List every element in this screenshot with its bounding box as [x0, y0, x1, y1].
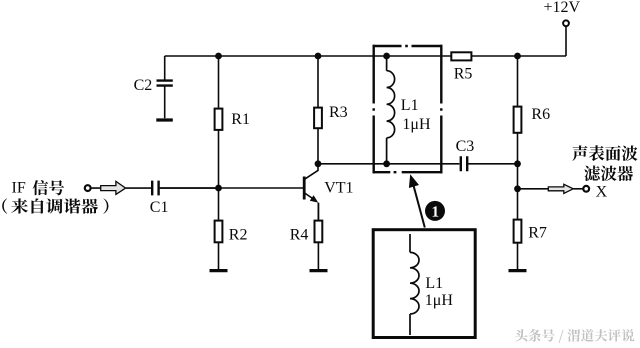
node (collector)	[315, 160, 322, 167]
wire emitter / R4 column	[317, 203, 319, 269]
svg-text:R2: R2	[229, 226, 248, 243]
resistor R7	[514, 220, 522, 243]
ground (R7)	[509, 269, 527, 272]
node (output/R7)	[514, 185, 521, 192]
resistor R1	[215, 109, 223, 130]
label C3	[456, 138, 475, 155]
label C2	[134, 77, 153, 94]
node (L1 bottom)	[383, 160, 390, 167]
svg-text:+12V: +12V	[544, 0, 581, 16]
wire R3 column	[317, 56, 319, 164]
svg-text:C2: C2	[134, 77, 153, 94]
node (L1 top)	[383, 53, 390, 60]
wire collector row to C3	[318, 163, 518, 165]
svg-text:R6: R6	[531, 106, 550, 123]
label L1 (callout)	[425, 275, 443, 292]
wire top supply rail	[165, 55, 566, 57]
label R1	[231, 111, 250, 128]
label （来自调谐器）	[2, 198, 7, 213]
capacitor C1	[152, 181, 158, 196]
label R4	[290, 227, 309, 244]
svg-text:C1: C1	[150, 199, 169, 216]
label R3	[329, 104, 348, 121]
resistor R2	[215, 221, 223, 243]
label R6	[531, 106, 550, 123]
callout arrow	[409, 174, 425, 227]
svg-text:L1: L1	[401, 97, 419, 114]
svg-text:R4: R4	[290, 227, 309, 244]
svg-text:L1: L1	[425, 275, 443, 292]
label L1 (shield box)	[401, 97, 419, 114]
inductor L1 (callout detail)	[410, 234, 419, 335]
label VT1	[324, 179, 353, 196]
wire C1 to base junction	[160, 187, 219, 189]
wire base rail	[160, 187, 303, 189]
wire +12V riser	[565, 27, 567, 56]
resistor R4	[315, 221, 323, 243]
wire R6 column	[517, 56, 519, 164]
label 1uH (shield box)	[402, 116, 431, 133]
label C1	[150, 199, 169, 216]
terminal +12V	[563, 20, 569, 26]
terminal input	[85, 185, 91, 191]
resistor R6	[514, 107, 522, 133]
svg-text:1μH: 1μH	[402, 116, 431, 133]
label 滤波器	[584, 165, 633, 181]
wire R6-R7 junction column	[517, 164, 519, 269]
label 声表面波	[572, 145, 637, 161]
svg-text:1μH: 1μH	[425, 292, 454, 309]
resistor R3	[314, 108, 322, 129]
label IF (input)	[12, 180, 26, 197]
label +12V	[544, 0, 581, 16]
watermark 头条号/渭道夫评说	[515, 329, 634, 343]
capacitor C3	[461, 156, 467, 171]
svg-text:C3: C3	[456, 138, 475, 155]
wire R2 column	[218, 188, 220, 269]
node (base)	[215, 185, 222, 192]
shield box (dash-dot) around L1	[373, 45, 443, 174]
wire output row	[518, 188, 583, 190]
callout badge 1	[425, 201, 445, 221]
label R5	[454, 66, 473, 83]
svg-text:IF: IF	[12, 180, 26, 197]
transistor VT1	[304, 164, 318, 221]
resistor R5 (horizontal)	[451, 52, 471, 60]
terminal output X	[583, 186, 589, 192]
node (R1 top)	[215, 53, 222, 60]
svg-text:R3: R3	[329, 104, 348, 121]
inductor L1 (inside shield box)	[387, 56, 395, 164]
callout box	[373, 230, 475, 338]
node (R5/R6/+12V)	[514, 53, 521, 60]
output block arrow	[548, 184, 573, 193]
label R7	[528, 225, 547, 242]
svg-text:VT1: VT1	[324, 179, 353, 196]
svg-text:X: X	[596, 183, 608, 200]
wire input row	[91, 187, 151, 189]
wire C2 branch	[164, 56, 166, 118]
ground (R2)	[210, 269, 228, 272]
label R2	[229, 226, 248, 243]
ground (C2)	[156, 118, 173, 121]
node (C3/R6)	[514, 160, 521, 167]
label 信号 (input)	[33, 180, 64, 195]
capacitor C2	[157, 81, 173, 86]
svg-text:R5: R5	[454, 66, 473, 83]
ground (R4)	[310, 269, 328, 272]
label X	[596, 183, 608, 200]
svg-text:R7: R7	[528, 225, 547, 242]
wire R1 column	[218, 56, 220, 188]
input block arrow	[101, 181, 126, 194]
node (R3 top)	[315, 53, 322, 60]
svg-text:R1: R1	[231, 111, 250, 128]
label 1uH (callout)	[425, 292, 454, 309]
